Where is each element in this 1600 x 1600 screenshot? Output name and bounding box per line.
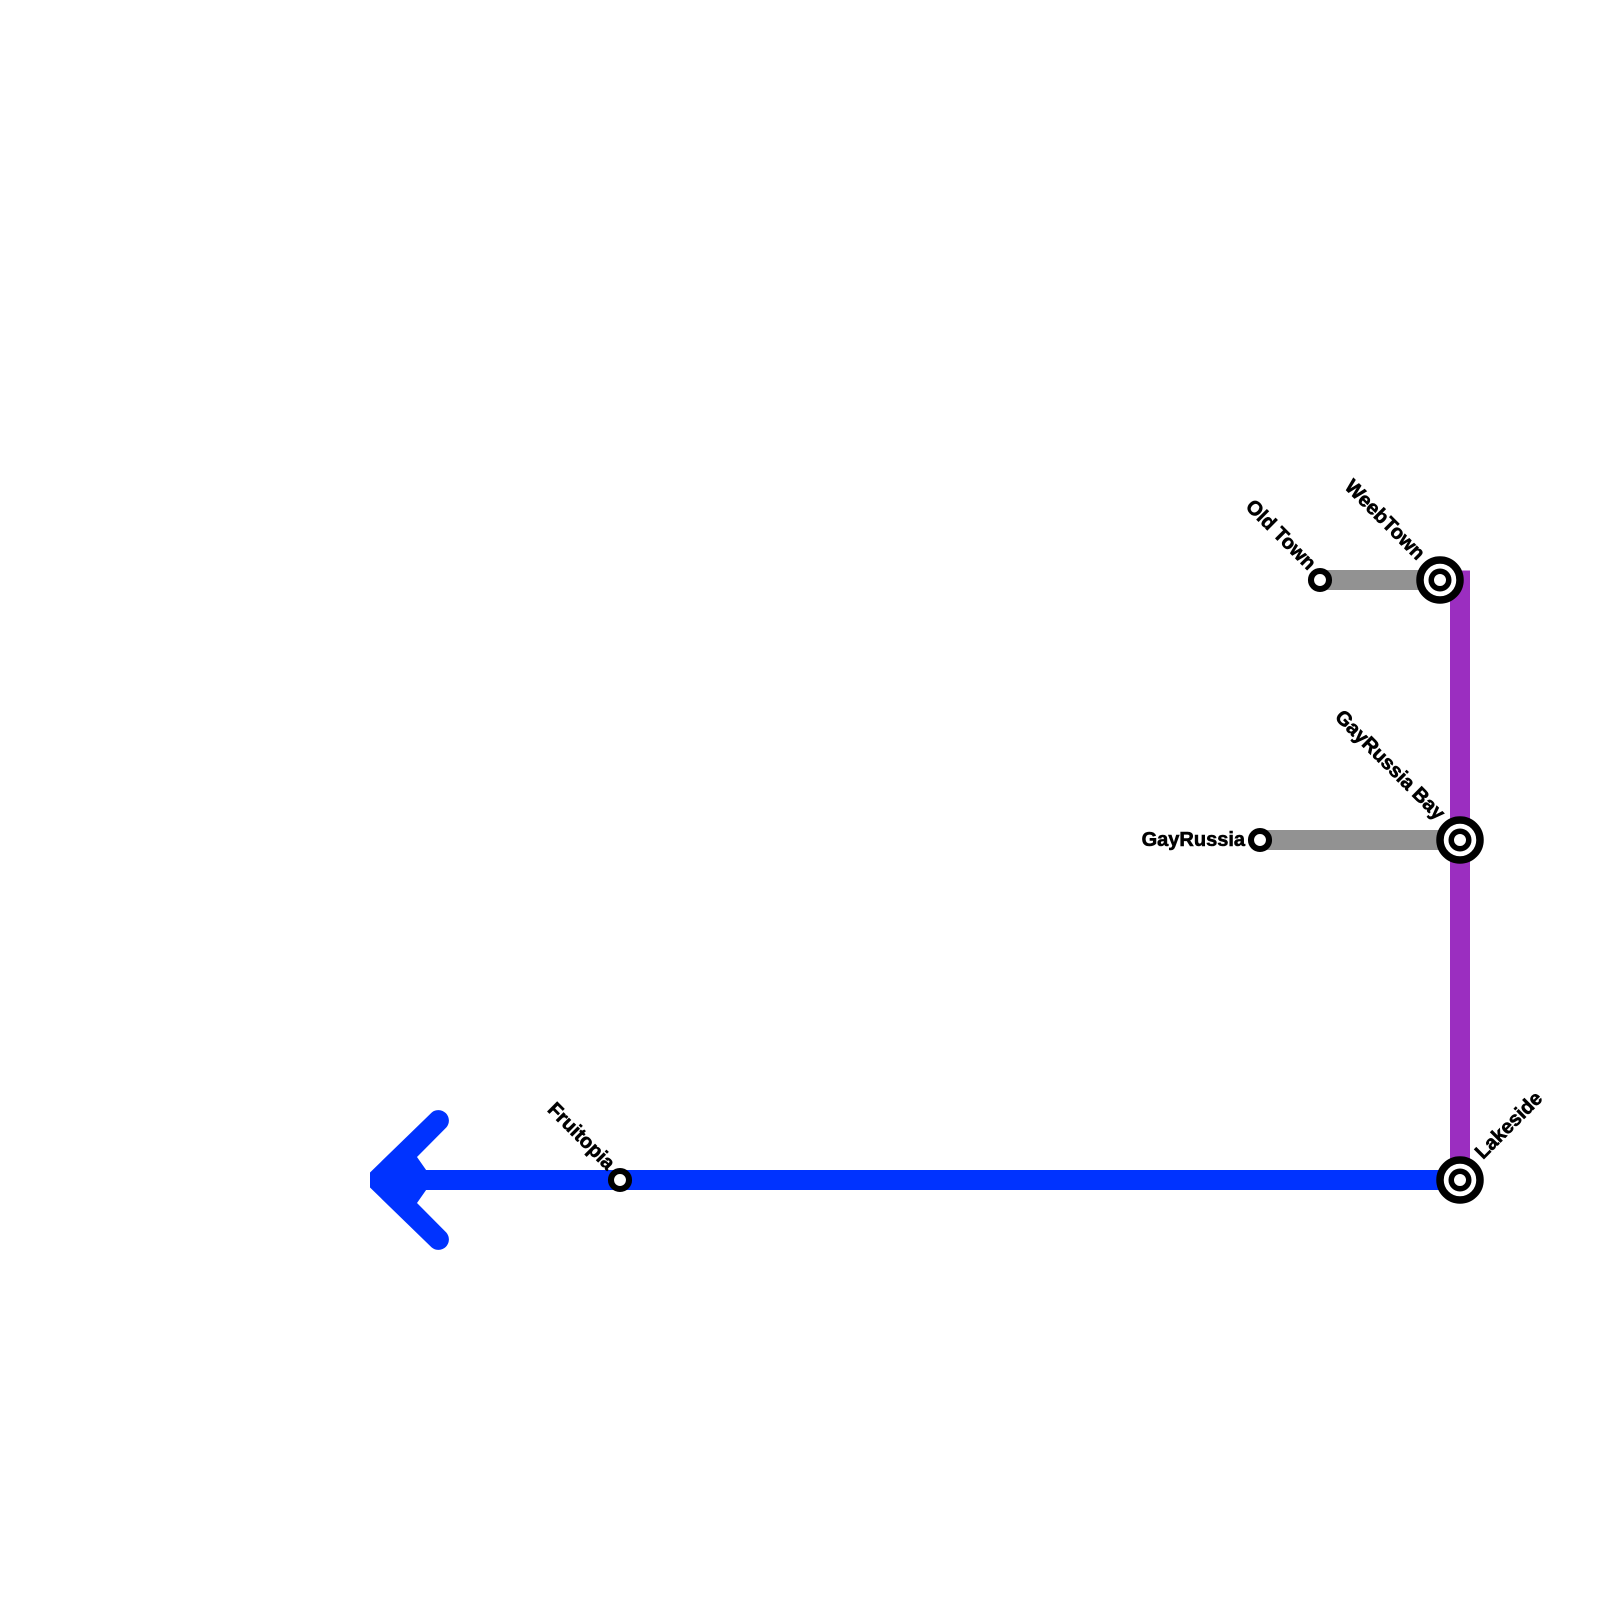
node: station Fruitopia — [611, 1171, 629, 1189]
wire: purple metro line (WeebTown to Lakeside) — [1450, 571, 1470, 1181]
wire: blue metro line (Lakeside to west) — [400, 1170, 1460, 1190]
node: station GayRussia Bay (interchange) — [1440, 820, 1480, 860]
node: station Old Town — [1311, 571, 1329, 589]
node: station GayRussia — [1251, 831, 1269, 849]
wire: gray connector GayRussia to GayRussia Bay — [1260, 830, 1460, 850]
node: station WeebTown (interchange) — [1420, 560, 1460, 600]
svg-text:GayRussia: GayRussia — [1142, 829, 1246, 851]
node: station Lakeside (interchange) — [1440, 1160, 1480, 1200]
wire: gray connector Old Town to WeebTown — [1320, 570, 1440, 590]
blue line end arrow (west continuation arrowhead) — [370, 1110, 449, 1250]
